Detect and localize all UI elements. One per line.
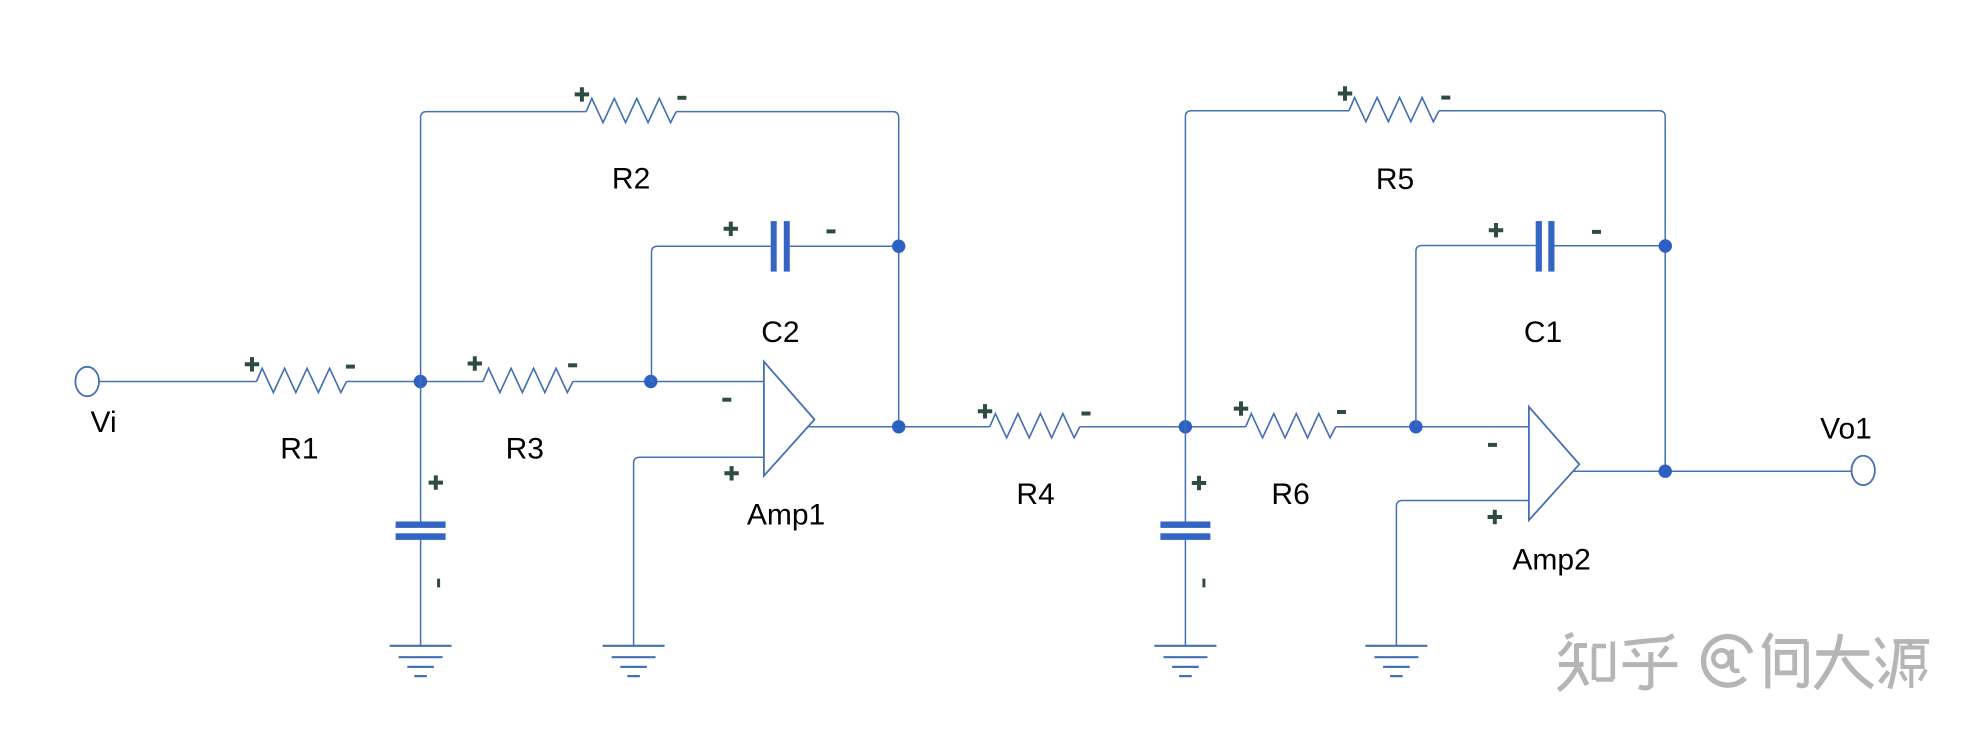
capacitor C4 plate top bbox=[1160, 522, 1210, 528]
resistor R2 bbox=[586, 98, 676, 122]
op-amp Amp2 bbox=[1529, 407, 1579, 520]
capacitor C2 plate left bbox=[771, 221, 777, 272]
resistor R3 bbox=[483, 368, 573, 392]
wire Amp2 noninverting input to ground leg bbox=[1396, 501, 1529, 646]
node B (R3/C2/Amp1- junction) bbox=[644, 375, 657, 388]
wire R1 to R3 bbox=[347, 381, 484, 383]
wire R3 to Amp1 inverting input bbox=[573, 381, 764, 383]
terminal Vi bbox=[75, 367, 99, 396]
wire left rail: node A up, corner, to R2 bbox=[421, 112, 587, 522]
svg-text:C1: C1 bbox=[1524, 316, 1562, 349]
capacitor C3 plate top bbox=[396, 522, 446, 528]
op-amp Amp1 bbox=[764, 362, 815, 476]
wire Amp1 noninverting input to ground leg bbox=[634, 457, 764, 646]
svg-text:Vo1: Vo1 bbox=[1820, 412, 1872, 445]
watermark glyph at bbox=[1703, 637, 1750, 686]
watermark glyph da bbox=[1816, 634, 1873, 689]
watermark glyph he bbox=[1764, 634, 1808, 689]
svg-text:C2: C2 bbox=[761, 316, 799, 349]
node C (C2/feedback rail junction) bbox=[892, 240, 905, 253]
wire node F up to C1 left plate bbox=[1416, 246, 1536, 427]
wire R5 to right, corner, down to Amp2 output node bbox=[1439, 111, 1665, 472]
capacitor C1 plate right bbox=[1548, 221, 1554, 272]
svg-text:R6: R6 bbox=[1271, 478, 1309, 511]
node F (R6/C1/Amp2- junction) bbox=[1409, 420, 1422, 433]
svg-text:R1: R1 bbox=[280, 433, 318, 466]
node A (R1/R3/rail junction) bbox=[414, 375, 427, 388]
watermark glyph yuan bbox=[1877, 638, 1889, 683]
node E (R4/R6/rail junction) bbox=[1179, 420, 1192, 433]
node G (C1/feedback rail junction) bbox=[1659, 239, 1672, 252]
svg-text:R4: R4 bbox=[1016, 478, 1054, 511]
wire C1 right plate to node G bbox=[1555, 245, 1666, 247]
wire C4 to ground bbox=[1184, 540, 1186, 646]
svg-text:R5: R5 bbox=[1376, 163, 1414, 196]
wire R6 to Amp2 inverting input bbox=[1336, 426, 1529, 428]
resistor R5 bbox=[1349, 98, 1439, 122]
resistor R1 bbox=[257, 368, 347, 392]
terminal Vo1 bbox=[1852, 456, 1875, 485]
capacitor C4 plate bottom bbox=[1160, 533, 1210, 540]
resistor R6 bbox=[1246, 414, 1336, 438]
ground 4 bbox=[1365, 646, 1427, 676]
wire node B up to C2 left plate bbox=[652, 246, 771, 381]
node H (Amp2 output) bbox=[1659, 465, 1672, 478]
wire Vi to R1 bbox=[99, 381, 257, 383]
wire C2 right plate to node C bbox=[790, 245, 899, 247]
svg-text:R2: R2 bbox=[612, 163, 650, 196]
wire Amp2 output to Vo1 bbox=[1574, 470, 1851, 472]
ground 3 bbox=[1154, 646, 1216, 676]
watermark glyph hu bbox=[1623, 636, 1678, 689]
capacitor C1 plate left bbox=[1536, 221, 1542, 272]
svg-text:Vi: Vi bbox=[91, 406, 117, 439]
capacitor C3 plate bottom bbox=[396, 533, 446, 540]
resistor R4 bbox=[990, 414, 1080, 438]
ground 1 bbox=[390, 646, 452, 676]
wire C3 to ground bbox=[420, 540, 422, 646]
wire right rail: node E up, corner, to R5 bbox=[1185, 111, 1349, 522]
watermark glyph zhi bbox=[1559, 634, 1588, 690]
node D (Amp1 output) bbox=[892, 420, 905, 433]
ground 2 bbox=[603, 646, 665, 676]
wire R2 to right, corner, down to output node bbox=[676, 112, 899, 427]
wire Amp1 output to R4 bbox=[809, 426, 990, 428]
svg-text:Amp2: Amp2 bbox=[1512, 543, 1590, 576]
capacitor C2 plate right bbox=[784, 221, 790, 272]
svg-text:R3: R3 bbox=[506, 433, 544, 466]
svg-text:Amp1: Amp1 bbox=[747, 499, 825, 532]
wire R4 to R6 bbox=[1080, 426, 1246, 428]
